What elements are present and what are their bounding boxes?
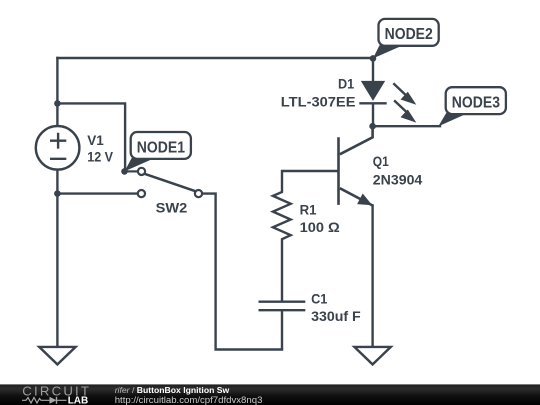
wire node1 branch <box>57 103 125 170</box>
node NODE3 junction dot <box>369 123 376 130</box>
svg-text:LAB: LAB <box>68 395 89 405</box>
node junction dot A <box>54 100 61 107</box>
wire LED cathode to NODE3 <box>373 125 440 127</box>
svg-text:2N3904: 2N3904 <box>373 173 423 188</box>
footer logo diode triangle <box>50 397 57 404</box>
svg-text:C1: C1 <box>311 291 328 306</box>
LED D1 emission arrows <box>393 83 416 122</box>
node NODE2 junction dot <box>370 55 377 62</box>
svg-text:LTL-307EE: LTL-307EE <box>281 95 356 110</box>
callout NODE2 <box>373 19 439 59</box>
svg-text:NODE3: NODE3 <box>452 95 501 112</box>
svg-text:V1: V1 <box>87 133 104 148</box>
wire left rail upper <box>56 58 58 126</box>
svg-text:Q1: Q1 <box>373 154 389 169</box>
wire switch throw2 to C1 bottom <box>202 194 282 350</box>
svg-text:R1: R1 <box>300 202 317 217</box>
node junction dot B <box>54 190 61 197</box>
capacitor C1 <box>259 302 306 350</box>
svg-text:100 Ω: 100 Ω <box>300 220 340 235</box>
svg-text:12 V: 12 V <box>87 150 113 165</box>
svg-text:NODE1: NODE1 <box>137 139 186 156</box>
transistor Q1 emitter arrow <box>357 194 372 206</box>
wire V1 minus to switch throw <box>57 192 137 194</box>
ground right <box>354 347 390 365</box>
svg-text:rifer / ButtonBox Ignition Sw: rifer / ButtonBox Ignition Sw <box>115 385 230 395</box>
callout NODE3 <box>438 87 506 126</box>
svg-text:http://circuitlab.com/cpf7dfdv: http://circuitlab.com/cpf7dfdvx8nq3 <box>115 395 263 405</box>
LED D1 <box>359 58 386 126</box>
ground left <box>39 347 75 365</box>
wire V1 bottom to ground <box>56 170 58 346</box>
callout NODE1 <box>125 132 191 171</box>
svg-text:D1: D1 <box>338 77 355 92</box>
svg-text:330uf F: 330uf F <box>311 309 361 324</box>
switch SW2 <box>125 168 203 197</box>
resistor R1 <box>273 171 339 302</box>
svg-text:SW2: SW2 <box>156 201 188 216</box>
wire top rail <box>57 57 373 59</box>
svg-text:NODE2: NODE2 <box>385 26 433 43</box>
voltage source V1 <box>36 126 80 170</box>
footer logo resistor-diode line <box>22 397 67 404</box>
footer bar <box>0 384 540 405</box>
node NODE1 junction dot <box>121 168 128 175</box>
wire emitter to ground <box>371 206 373 347</box>
transistor Q1 <box>339 126 373 205</box>
